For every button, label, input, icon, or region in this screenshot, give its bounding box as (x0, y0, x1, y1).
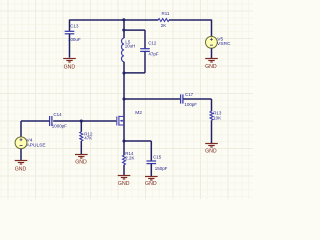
svg-text:2K: 2K (161, 23, 166, 28)
svg-text:GND: GND (75, 159, 87, 165)
svg-text:10uH: 10uH (125, 44, 136, 49)
svg-text:150pF: 150pF (155, 166, 168, 171)
svg-text:APULSE: APULSE (27, 143, 47, 149)
svg-text:M2: M2 (135, 110, 142, 116)
svg-text:100uF: 100uF (68, 37, 81, 42)
svg-text:GND: GND (205, 148, 217, 154)
svg-text:R11: R11 (162, 11, 170, 16)
svg-text:C14: C14 (53, 112, 62, 117)
svg-text:C13: C13 (70, 24, 79, 29)
svg-text:GND: GND (15, 167, 27, 173)
svg-text:GND: GND (64, 64, 76, 70)
svg-text:C17: C17 (185, 92, 194, 97)
svg-text:C15: C15 (153, 154, 162, 159)
svg-text:GND: GND (118, 181, 130, 187)
svg-text:10K: 10K (213, 115, 221, 120)
svg-text:47K: 47K (84, 135, 92, 140)
svg-text:GND: GND (145, 181, 157, 187)
svg-text:2.2K: 2.2K (125, 155, 134, 160)
svg-text:C12: C12 (148, 41, 157, 46)
svg-text:GND: GND (205, 64, 217, 70)
svg-text:VSRC: VSRC (217, 41, 231, 47)
svg-text:100pF: 100pF (184, 102, 197, 107)
svg-text:1000pF: 1000pF (52, 123, 67, 128)
svg-text:47pF: 47pF (148, 52, 158, 57)
